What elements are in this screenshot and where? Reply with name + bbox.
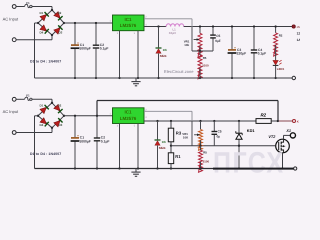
- svg-text:LM2576: LM2576: [120, 116, 137, 121]
- wire ground rail (bottom circuit): [35, 168, 294, 170]
- node bridge right: [63, 22, 65, 24]
- wire: [157, 121, 159, 169]
- node: [238, 120, 240, 122]
- svg-text:D6: D6: [163, 48, 167, 52]
- node: [137, 77, 139, 79]
- wire: [199, 51, 201, 78]
- label C4 value: [258, 52, 267, 56]
- output terminal (+): [292, 25, 295, 28]
- wire IC pin3 to ground rail: [119, 124, 121, 169]
- wire: [253, 27, 255, 79]
- svg-text:5824: 5824: [160, 54, 167, 58]
- label D3: [59, 30, 63, 34]
- label D1: [40, 104, 44, 108]
- wire: [74, 23, 76, 78]
- wire IC pin5 to ground rail: [137, 31, 139, 78]
- wire input rail: [64, 22, 113, 24]
- wire: [200, 140, 202, 146]
- node: [253, 77, 255, 79]
- svg-text:K: K: [297, 120, 299, 124]
- VR1 wiper arrow: [194, 38, 200, 41]
- label output note 2: [297, 38, 302, 42]
- node bridge bottom: [51, 127, 53, 129]
- capacitor C2: [93, 45, 99, 48]
- node: [74, 167, 76, 169]
- label C2 value: [101, 139, 110, 143]
- label C5 value: [215, 39, 221, 43]
- node: [199, 77, 201, 79]
- potentiometer VR1 (bottom circuit): [199, 129, 203, 150]
- svg-text:KD1: KD1: [247, 128, 256, 133]
- terminal ground rail end: [294, 167, 297, 170]
- wire: [200, 146, 202, 169]
- wire: [170, 164, 172, 169]
- svg-text:C5: C5: [216, 34, 220, 38]
- zener diode KD1: [236, 131, 242, 139]
- pin 1 label: [110, 113, 112, 116]
- label R5: [203, 56, 207, 60]
- svg-text:5824: 5824: [159, 146, 166, 150]
- label VR1 value: [183, 136, 189, 140]
- AC input terminal (bottom circuit, neutral): [12, 131, 16, 135]
- resistor R2: [274, 33, 278, 56]
- wire: [51, 35, 53, 40]
- node: [212, 25, 214, 27]
- svg-text:1000µF: 1000µF: [79, 47, 90, 51]
- label IC1: [124, 110, 132, 115]
- label F1: [26, 94, 30, 98]
- resistor R2 (box, bottom circuit): [256, 119, 271, 124]
- label D4: [40, 123, 44, 127]
- wire: [16, 39, 52, 41]
- label AC Input: [3, 16, 19, 21]
- svg-text:D1 to D4 : 1N4007: D1 to D4 : 1N4007: [30, 59, 61, 63]
- node: [118, 77, 120, 79]
- label X1: [285, 129, 291, 133]
- label C2: [101, 136, 105, 140]
- svg-text:ПГСХ: ПГСХ: [213, 147, 285, 180]
- node: [95, 22, 97, 24]
- svg-text:0.1µF: 0.1µF: [101, 139, 110, 143]
- svg-text:R2: R2: [261, 112, 267, 117]
- svg-text:5100: 5100: [202, 63, 209, 67]
- wire bridge edge TR: [52, 103, 64, 116]
- wire bridge edge BL: [38, 116, 52, 128]
- label D3: [59, 123, 63, 127]
- label D6: [162, 140, 166, 144]
- label L1 value: [169, 31, 176, 35]
- output terminal X1: [290, 133, 295, 138]
- label D1: [40, 11, 44, 15]
- node: [74, 115, 76, 117]
- wire feedback tie: [192, 50, 213, 52]
- regulator IC1 body (bottom circuit): [113, 108, 145, 124]
- diode D1 (bottom circuit): [40, 105, 49, 114]
- node: [74, 22, 76, 24]
- pin 4 label: [145, 23, 147, 26]
- label D6: [163, 48, 167, 52]
- label LED1: [277, 67, 285, 71]
- label R5 value: [202, 63, 209, 67]
- label D6 value: [160, 54, 167, 58]
- transistor VT2: [276, 139, 290, 153]
- node bridge top: [51, 9, 53, 11]
- svg-text:0.1µF: 0.1µF: [258, 52, 267, 56]
- potentiometer VR1: [198, 33, 202, 57]
- wire bridge edge BR: [52, 116, 64, 128]
- wire: [16, 6, 21, 8]
- resistor R3 (box): [168, 128, 173, 142]
- wire: [32, 99, 52, 102]
- wire feedback tie and gate line: [171, 145, 276, 147]
- regulator IC1 body: [113, 15, 145, 31]
- label D2: [58, 104, 62, 108]
- node: [199, 50, 201, 52]
- svg-text:0.1µF: 0.1µF: [100, 47, 109, 51]
- wire: [158, 27, 160, 79]
- fuse F1 (bottom circuit): [20, 97, 32, 100]
- wire: [200, 121, 202, 129]
- node: [277, 120, 279, 122]
- node: [157, 25, 159, 27]
- wire: [213, 121, 215, 146]
- AC input terminal J1 (top, line): [12, 5, 16, 9]
- capacitor C1: [71, 43, 80, 48]
- wire: [275, 45, 277, 60]
- node: [137, 167, 139, 169]
- svg-text:D1: D1: [40, 104, 44, 108]
- label R5 value: [203, 159, 210, 163]
- capacitor C4: [251, 50, 257, 53]
- wire: [16, 98, 21, 100]
- wire: [35, 23, 39, 78]
- label R2: [261, 112, 267, 117]
- svg-text:D3: D3: [59, 30, 63, 34]
- wire feedback route: [144, 111, 192, 145]
- wire bridge edge BL: [38, 23, 52, 35]
- node: [170, 120, 172, 122]
- pin 5 label: [134, 32, 136, 35]
- node: [156, 167, 158, 169]
- positive raw terminal: [293, 120, 296, 123]
- capacitor C5 (bottom circuit): [212, 132, 218, 135]
- svg-text:R5: R5: [203, 151, 207, 155]
- node bridge bottom: [51, 34, 53, 36]
- diode D4 (bottom circuit): [40, 118, 49, 127]
- svg-text:D6: D6: [162, 140, 166, 144]
- resistor R5: [198, 55, 202, 79]
- node: [199, 120, 201, 122]
- svg-text:D1 to D4 : 1N4007: D1 to D4 : 1N4007: [30, 152, 61, 156]
- svg-text:D1: D1: [40, 11, 44, 15]
- wire: [212, 27, 214, 52]
- svg-text:D4: D4: [40, 30, 44, 34]
- svg-text:0µF: 0µF: [215, 39, 221, 43]
- wire: [74, 116, 76, 169]
- node: [231, 25, 233, 27]
- pin 3 label: [117, 125, 119, 128]
- label R3: [176, 130, 182, 135]
- svg-text:D4: D4: [40, 123, 44, 127]
- node: [238, 145, 240, 147]
- negative output terminal: [292, 76, 295, 79]
- svg-text:220µF: 220µF: [237, 52, 247, 56]
- label VR1 value: [184, 43, 189, 47]
- svg-text:R2: R2: [279, 34, 283, 38]
- svg-text:D2: D2: [58, 104, 62, 108]
- wire input rail: [64, 115, 113, 117]
- capacitor C3: [228, 48, 237, 53]
- pin 5 label: [134, 125, 136, 128]
- node: [74, 77, 76, 79]
- label output voltage: [297, 25, 301, 29]
- wire: [231, 27, 233, 79]
- node: [231, 77, 233, 79]
- label raw terminal: [297, 120, 299, 124]
- diode D6: [156, 48, 162, 53]
- wire: [96, 116, 98, 169]
- wire output rail: [144, 120, 256, 122]
- wire IC pin5 to ground rail: [137, 124, 139, 169]
- node bridge left: [37, 22, 39, 24]
- watermark ElecCircuit.zone: [164, 69, 194, 74]
- label R1: [175, 154, 181, 159]
- label C5: [218, 129, 222, 133]
- wire: [170, 142, 172, 146]
- svg-text:IC1: IC1: [124, 17, 132, 22]
- label output note 1: [297, 31, 301, 35]
- svg-text:10k: 10k: [184, 43, 189, 47]
- node: [199, 25, 201, 27]
- VR1 wiper arrow: [194, 134, 200, 137]
- wire: [170, 146, 172, 153]
- wire drain: [284, 135, 291, 139]
- node: [95, 77, 97, 79]
- wire source: [282, 153, 284, 169]
- svg-text:R1: R1: [175, 154, 181, 159]
- node: [96, 115, 98, 117]
- node: [238, 167, 240, 169]
- label C1: [80, 43, 84, 47]
- wire output rail: [184, 26, 292, 28]
- node: [199, 167, 201, 169]
- label VR1: [184, 39, 190, 43]
- node: [170, 167, 172, 169]
- label LM2576: [120, 23, 137, 28]
- label C5 value: [217, 134, 221, 138]
- label F1: [26, 1, 30, 5]
- svg-text:IC1: IC1: [124, 110, 132, 115]
- wire: [238, 121, 240, 169]
- pin 4 label: [145, 116, 147, 119]
- diode D1: [40, 12, 49, 21]
- svg-text:D2: D2: [58, 11, 62, 15]
- wire: [16, 132, 52, 134]
- svg-text:1A: 1A: [297, 38, 300, 42]
- svg-text:R5: R5: [203, 56, 207, 60]
- AC input terminal J2 (bottom, neutral): [12, 38, 16, 42]
- svg-text:AC Input: AC Input: [3, 16, 19, 21]
- svg-text:1000µF: 1000µF: [79, 139, 90, 143]
- label IC1: [124, 17, 132, 22]
- pin 2 label: [145, 16, 147, 19]
- node: [199, 145, 201, 147]
- svg-text:VT2: VT2: [268, 135, 276, 139]
- node: [118, 167, 120, 169]
- wire bridge edge TL: [38, 10, 52, 23]
- label C1 value: [79, 139, 90, 143]
- node: [274, 25, 276, 27]
- svg-text:LM2576: LM2576: [120, 23, 137, 28]
- label D2: [58, 11, 62, 15]
- label AC Input: [3, 109, 19, 114]
- label C2: [100, 43, 104, 47]
- wire bridge edge TL: [38, 103, 52, 116]
- node bridge right: [63, 115, 65, 117]
- diode D4: [40, 25, 49, 34]
- node bridge left: [37, 115, 39, 117]
- wire ground rail: [35, 77, 293, 79]
- wire bridge edge BR: [52, 23, 64, 35]
- LED LED1: [273, 60, 282, 65]
- wire feedback route: [144, 19, 192, 51]
- node: [96, 167, 98, 169]
- label KD1: [247, 128, 256, 133]
- svg-text:ElecCircuit.zone: ElecCircuit.zone: [164, 69, 194, 74]
- label C1 value: [79, 47, 90, 51]
- node: [253, 25, 255, 27]
- label L1: [173, 28, 177, 32]
- svg-text:+5: +5: [297, 25, 301, 29]
- label R5: [203, 151, 207, 155]
- svg-text:X1: X1: [285, 129, 291, 133]
- wire: [275, 27, 277, 33]
- label D4: [40, 30, 44, 34]
- node: [156, 120, 158, 122]
- svg-text:F1: F1: [26, 94, 30, 98]
- wire bridge edge TR: [52, 10, 64, 23]
- label diode note: [30, 59, 61, 63]
- node: [213, 120, 215, 122]
- resistor R1 (box): [168, 153, 173, 164]
- wire output rail: [144, 26, 166, 28]
- diode D6 (bottom circuit): [155, 140, 161, 145]
- capacitor C1 (bottom circuit): [71, 136, 80, 141]
- wire: [95, 23, 97, 78]
- ground: [131, 78, 140, 86]
- wire: [35, 116, 39, 169]
- pin 2 label: [145, 108, 147, 111]
- svg-text:0µ: 0µ: [217, 134, 221, 138]
- wire: [51, 128, 53, 133]
- diode D2 (bottom circuit): [54, 104, 63, 113]
- label D6 value: [159, 146, 166, 150]
- fuse F1: [20, 4, 32, 7]
- svg-text:5100: 5100: [203, 159, 210, 163]
- diode D3: [54, 25, 63, 34]
- diode D2: [54, 11, 63, 20]
- wire IC pin3 to ground rail: [119, 31, 121, 78]
- pin 1 label: [110, 20, 112, 23]
- svg-text:LED1: LED1: [277, 67, 285, 71]
- wire: [271, 120, 292, 122]
- resistor R5 (bottom circuit): [199, 150, 203, 172]
- label C1: [80, 136, 84, 140]
- wire: [199, 46, 201, 51]
- capacitor C2 (bottom circuit): [94, 138, 100, 141]
- svg-text:F1: F1: [26, 1, 30, 5]
- label LM2576: [120, 116, 137, 121]
- label diode note (bottom circuit): [30, 152, 61, 156]
- AC input terminal (bottom circuit, line): [12, 97, 16, 101]
- node: [281, 167, 283, 169]
- pin 3 label: [117, 32, 119, 35]
- label C3 value: [237, 52, 247, 56]
- svg-text:33µH: 33µH: [169, 31, 176, 35]
- wire raw supply riser: [97, 101, 278, 122]
- wire: [275, 66, 277, 78]
- diode D3 (bottom circuit): [54, 118, 63, 127]
- ground (bottom circuit): [131, 169, 140, 177]
- svg-text:AC Input: AC Input: [3, 109, 19, 114]
- svg-text:D3: D3: [59, 123, 63, 127]
- svg-text:12: 12: [297, 31, 300, 35]
- wire: [32, 7, 52, 10]
- node: [170, 145, 172, 147]
- wire: [199, 27, 201, 34]
- node bridge top: [51, 102, 53, 104]
- label C4: [258, 48, 262, 52]
- node: [274, 77, 276, 79]
- label R2: [279, 34, 283, 38]
- inductor L1: [166, 24, 184, 27]
- svg-text:R3: R3: [176, 130, 182, 135]
- label C3: [237, 48, 241, 52]
- svg-text:10K: 10K: [183, 136, 189, 140]
- label VR1: [182, 132, 188, 136]
- watermark letters: [213, 147, 285, 180]
- label C5: [216, 34, 220, 38]
- svg-text:C5: C5: [218, 129, 222, 133]
- node: [157, 77, 159, 79]
- capacitor C5: [210, 35, 216, 38]
- wire gate stub: [275, 145, 277, 147]
- label VT2: [268, 135, 276, 139]
- wire: [170, 121, 172, 128]
- label C2 value: [100, 47, 109, 51]
